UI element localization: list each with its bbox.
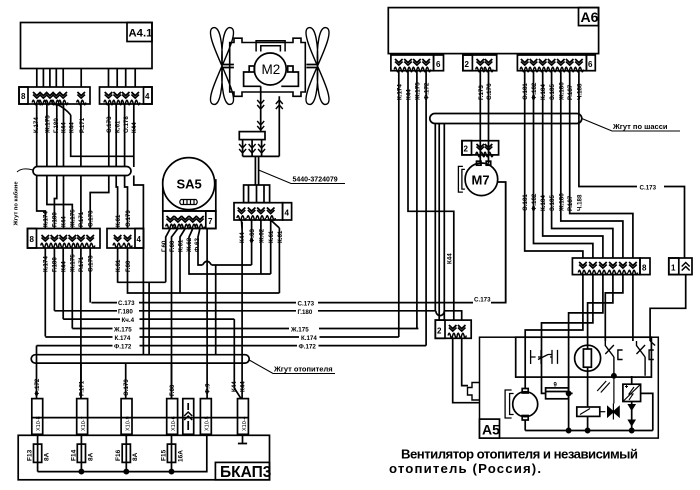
svg-text:2: 2 [465,60,470,69]
wires from SA5 aux pin down (F.9) [207,229,216,368]
M2 inline connector [239,132,265,140]
svg-text:16А: 16А [177,450,184,462]
bottom bus of A5 [525,430,653,432]
svg-text:6: 6 [436,60,441,69]
wires from A6-1 down [399,71,454,346]
svg-text:1: 1 [671,264,676,273]
svg-text:Г.60: Г.60 [125,260,132,272]
contact symbol 2 [637,341,656,376]
switch SA5 [163,158,216,211]
svg-text:M2: M2 [262,62,281,77]
svg-text:К44: К44 [131,122,138,133]
fuse box connectors X10 [32,399,249,435]
svg-text:К.184: К.184 [540,195,547,211]
connector block 1 (single pin, chevron) [669,258,692,275]
svg-text:Ж.175: Ж.175 [44,115,51,134]
svg-text:Х10-4: Х10-4 [242,416,248,431]
inner control rect [516,337,652,377]
svg-text:Ф.9: Ф.9 [205,383,212,394]
svg-text:8А: 8А [132,452,139,461]
svg-text:Ж.175: Ж.175 [414,82,421,101]
svg-text:З.185: З.185 [549,84,556,100]
extra chassis wires [435,124,444,321]
svg-text:8: 8 [21,92,26,101]
svg-text:M7: M7 [472,173,490,188]
svg-text:Ч.188: Ч.188 [576,194,583,211]
wires from A4.1 connectors down to cab harness [37,104,134,167]
right fan blade [306,28,329,105]
svg-text:Ж.175: Ж.175 [70,209,77,228]
resistor with tap [542,383,573,399]
svg-text:Х10-6: Х10-6 [171,416,177,431]
svg-text:К44: К44 [61,216,68,227]
contact symbol 1 [605,341,622,376]
svg-text:A5: A5 [482,422,500,438]
connector 2 to A5 [435,320,471,338]
svg-text:К.174: К.174 [43,211,50,227]
heater harness wrap [31,355,249,363]
svg-text:К.174: К.174 [301,335,317,342]
harness wrap (cab) [33,167,131,176]
M2 wires down with arrows [261,86,280,156]
svg-text:К.61: К.61 [178,239,185,252]
bus Zh.175 [72,328,418,330]
label cab harness [17,169,33,172]
unit A6 [388,8,598,54]
connector X2 of A4.1 (4) [100,87,153,105]
svg-text:О.181: О.181 [522,194,529,211]
svg-text:Р.171: Р.171 [78,211,85,227]
connector X1 of A4.1 (8) [19,87,90,105]
shafts [222,65,319,68]
svg-text:О.179: О.179 [125,210,132,227]
svg-text:5440-3724079: 5440-3724079 [293,177,338,184]
svg-text:4: 4 [137,235,142,244]
wires below M2 connector [241,220,244,372]
svg-text:F14: F14 [70,449,77,461]
svg-text:К44: К44 [447,253,454,264]
svg-text:Ф.182: Ф.182 [531,193,538,211]
svg-text:Р.171: Р.171 [79,380,86,396]
svg-text:Г.180: Г.180 [298,309,313,316]
connector A6-1 (6) [391,55,444,72]
duplicate labels above staircase [522,193,583,212]
connector of SA5 (7) [163,211,216,229]
wires below SA5 [166,229,171,283]
wires A4.1 to connectors [37,69,135,88]
svg-text:О.181: О.181 [522,83,529,100]
svg-text:С.173: С.173 [298,301,315,308]
bus through connectors [32,417,249,419]
svg-text:Г.60: Г.60 [169,384,176,396]
labels below M2 connector [239,228,284,244]
bus C.173 [91,182,505,303]
svg-text:К.61: К.61 [277,230,284,243]
svg-text:F13: F13 [27,449,34,461]
svg-text:Ж.62: Ж.62 [259,228,266,244]
svg-text:Г.180: Г.180 [118,309,133,316]
svg-text:A4.1: A4.1 [129,28,153,40]
bus K.174 [45,336,399,338]
fuse bottom bus [38,435,207,471]
svg-text:Х10-5: Х10-5 [205,416,211,431]
wire rearrangement between wrap and mid connectors [37,176,46,229]
svg-text:С.173: С.173 [106,116,113,133]
glow plug [623,376,641,431]
svg-text:2: 2 [464,145,469,154]
svg-text:Ж.186: Ж.186 [558,193,565,212]
unit A5 box [468,337,659,438]
svg-text:F16: F16 [115,449,122,461]
svg-text:8А: 8А [44,452,51,461]
wires from A6-3: staircase to block 8 [579,71,685,258]
valve [600,376,619,420]
svg-text:Кч.4: Кч.4 [122,317,135,324]
wires wrap to fuse connectors [37,363,208,399]
svg-text:7: 7 [208,217,213,226]
svg-text:Жгут по шасси: Жгут по шасси [612,122,668,131]
svg-text:Ф.182: Ф.182 [531,82,538,100]
wire labels below A6 [396,82,583,101]
indicator lamp (flame plug) [575,345,601,371]
svg-text:Ж.175: Ж.175 [113,327,132,334]
svg-text:Г.60: Г.60 [169,240,176,252]
glow plug right path [641,393,653,430]
svg-text:8: 8 [642,264,647,273]
svg-text:К.174: К.174 [396,84,403,100]
svg-text:С.176: С.176 [486,83,493,100]
bus F.172 [37,345,427,347]
svg-text:4: 4 [145,92,150,101]
svg-text:К.174: К.174 [115,335,131,342]
svg-text:К.61: К.61 [115,259,122,272]
bus K44 [63,318,234,320]
svg-text:Ф.63: Ф.63 [249,229,256,243]
svg-text:Г.180: Г.180 [52,212,59,227]
connector of M2 (4) [234,203,292,221]
svg-text:Ф.172: Ф.172 [114,344,132,351]
svg-text:Р.187: Р.187 [567,84,574,100]
chassis harness wrap [430,114,582,124]
svg-text:Жгут по кабине: Жгут по кабине [13,181,20,227]
svg-text:Ч.188: Ч.188 [576,83,583,100]
svg-text:К.61: К.61 [115,214,122,227]
mid connector block 2 (4) [107,229,144,249]
svg-text:БКАП3: БКАП3 [220,464,272,481]
svg-text:SA5: SA5 [177,177,202,192]
thermal switch symbol [531,350,558,364]
wires mid connector 1 down to buses [45,248,90,399]
wire labels above fuse box [34,378,247,396]
svg-text:Р.187: Р.187 [567,195,574,211]
bundle label 5440-3724079 [259,170,345,184]
svg-text:Ж.186: Ж.186 [558,82,565,101]
fan connector fan-out box [244,185,270,203]
svg-text:К44: К44 [240,381,247,392]
svg-text:4: 4 [285,209,290,218]
relay [577,407,600,431]
svg-text:2: 2 [437,327,442,336]
svg-text:Ф.172: Ф.172 [424,82,431,100]
svg-text:Г.173: Г.173 [478,85,485,100]
svg-text:З.185: З.185 [549,195,556,211]
unit A4.1 [21,23,153,69]
svg-text:8А: 8А [87,452,94,461]
mid connector block 1 (8) [28,229,101,249]
flexible marks [597,381,610,393]
svg-text:отопитель (Россия).: отопитель (Россия). [389,461,541,476]
fuses F13 F14 F16 F15 [34,434,176,471]
labels above mid connectors [43,209,133,228]
wire labels under A4.1 connectors [33,115,138,134]
svg-text:F15: F15 [160,449,167,461]
labels below mid connectors [43,254,133,273]
svg-text:К.184: К.184 [540,84,547,100]
svg-text:Жгут отопителя: Жгут отопителя [273,365,333,374]
junction wires [569,341,588,431]
connector of M7 (2) [462,141,499,157]
connector A6-3 (6) [517,55,595,72]
connector A6-2 (2) [463,55,497,72]
wire K44 split diagonal [56,104,70,115]
svg-text:A6: A6 [581,9,599,25]
svg-text:Ж.175: Ж.175 [290,327,309,334]
svg-text:С.173: С.173 [640,185,657,192]
svg-text:С.173: С.173 [88,210,95,227]
svg-text:Х10-9: Х10-9 [125,416,131,431]
bus G.180 [54,311,461,320]
svg-text:8: 8 [30,235,35,244]
svg-text:Г.60: Г.60 [161,240,168,252]
svg-text:Х10-7: Х10-7 [81,416,87,431]
wires mid connector 2 down [118,248,280,293]
connector block 8 [572,258,650,275]
svg-text:К44: К44 [406,89,413,100]
ground in fuse box [238,434,247,443]
labels below SA5 [161,237,201,253]
motor M2 with fan [210,28,329,105]
svg-text:Ф.172: Ф.172 [299,344,317,351]
K44 bus drop to fuse box [233,319,235,372]
svg-text:С.173: С.173 [118,300,135,307]
fuse unit BKAP3 box [18,435,269,480]
svg-text:6: 6 [588,60,593,69]
svg-text:Ф.172: Ф.172 [34,378,41,396]
svg-text:К44: К44 [69,122,76,133]
wires from A6-2 to M7 [480,71,488,164]
svg-text:Х10-8: Х10-8 [36,416,42,431]
staircase from block 8 down into A5 [525,275,583,378]
M2 harness bundle [243,156,280,185]
motor M7 [458,161,505,302]
svg-text:Вентилятор отопителя и независ: Вентилятор отопителя и независимый [401,447,638,462]
svg-text:С.173: С.173 [474,297,491,304]
caption [389,447,638,477]
left fan blade [210,28,233,105]
motor of A5 [505,378,538,431]
